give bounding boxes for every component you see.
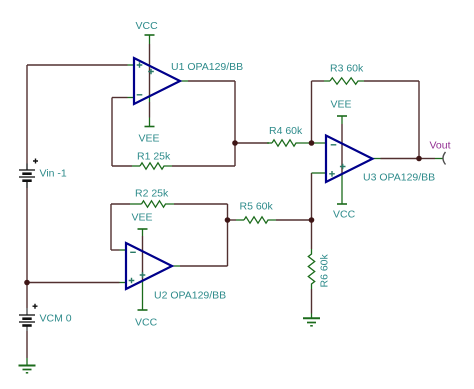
- svg-text:VCC: VCC: [333, 208, 356, 220]
- svg-text:R1 25k: R1 25k: [137, 151, 171, 163]
- svg-text:Vout: Vout: [430, 139, 451, 151]
- svg-text:VCM 0: VCM 0: [40, 313, 72, 325]
- svg-text:R3 60k: R3 60k: [330, 62, 364, 74]
- svg-text:VCC: VCC: [136, 20, 159, 32]
- svg-text:VEE: VEE: [331, 99, 352, 111]
- svg-text:R2 25k: R2 25k: [135, 188, 169, 200]
- svg-text:Vin -1: Vin -1: [40, 167, 67, 179]
- svg-text:U3 OPA129/BB: U3 OPA129/BB: [363, 172, 435, 184]
- svg-text:U1 OPA129/BB: U1 OPA129/BB: [171, 61, 243, 73]
- svg-text:VEE: VEE: [132, 211, 153, 223]
- svg-text:R6 60k: R6 60k: [319, 253, 331, 287]
- svg-text:VCC: VCC: [135, 316, 158, 328]
- svg-text:R5 60k: R5 60k: [240, 201, 274, 213]
- svg-text:R4 60k: R4 60k: [269, 125, 303, 137]
- svg-text:U2 OPA129/BB: U2 OPA129/BB: [154, 290, 226, 302]
- svg-text:VEE: VEE: [139, 133, 160, 145]
